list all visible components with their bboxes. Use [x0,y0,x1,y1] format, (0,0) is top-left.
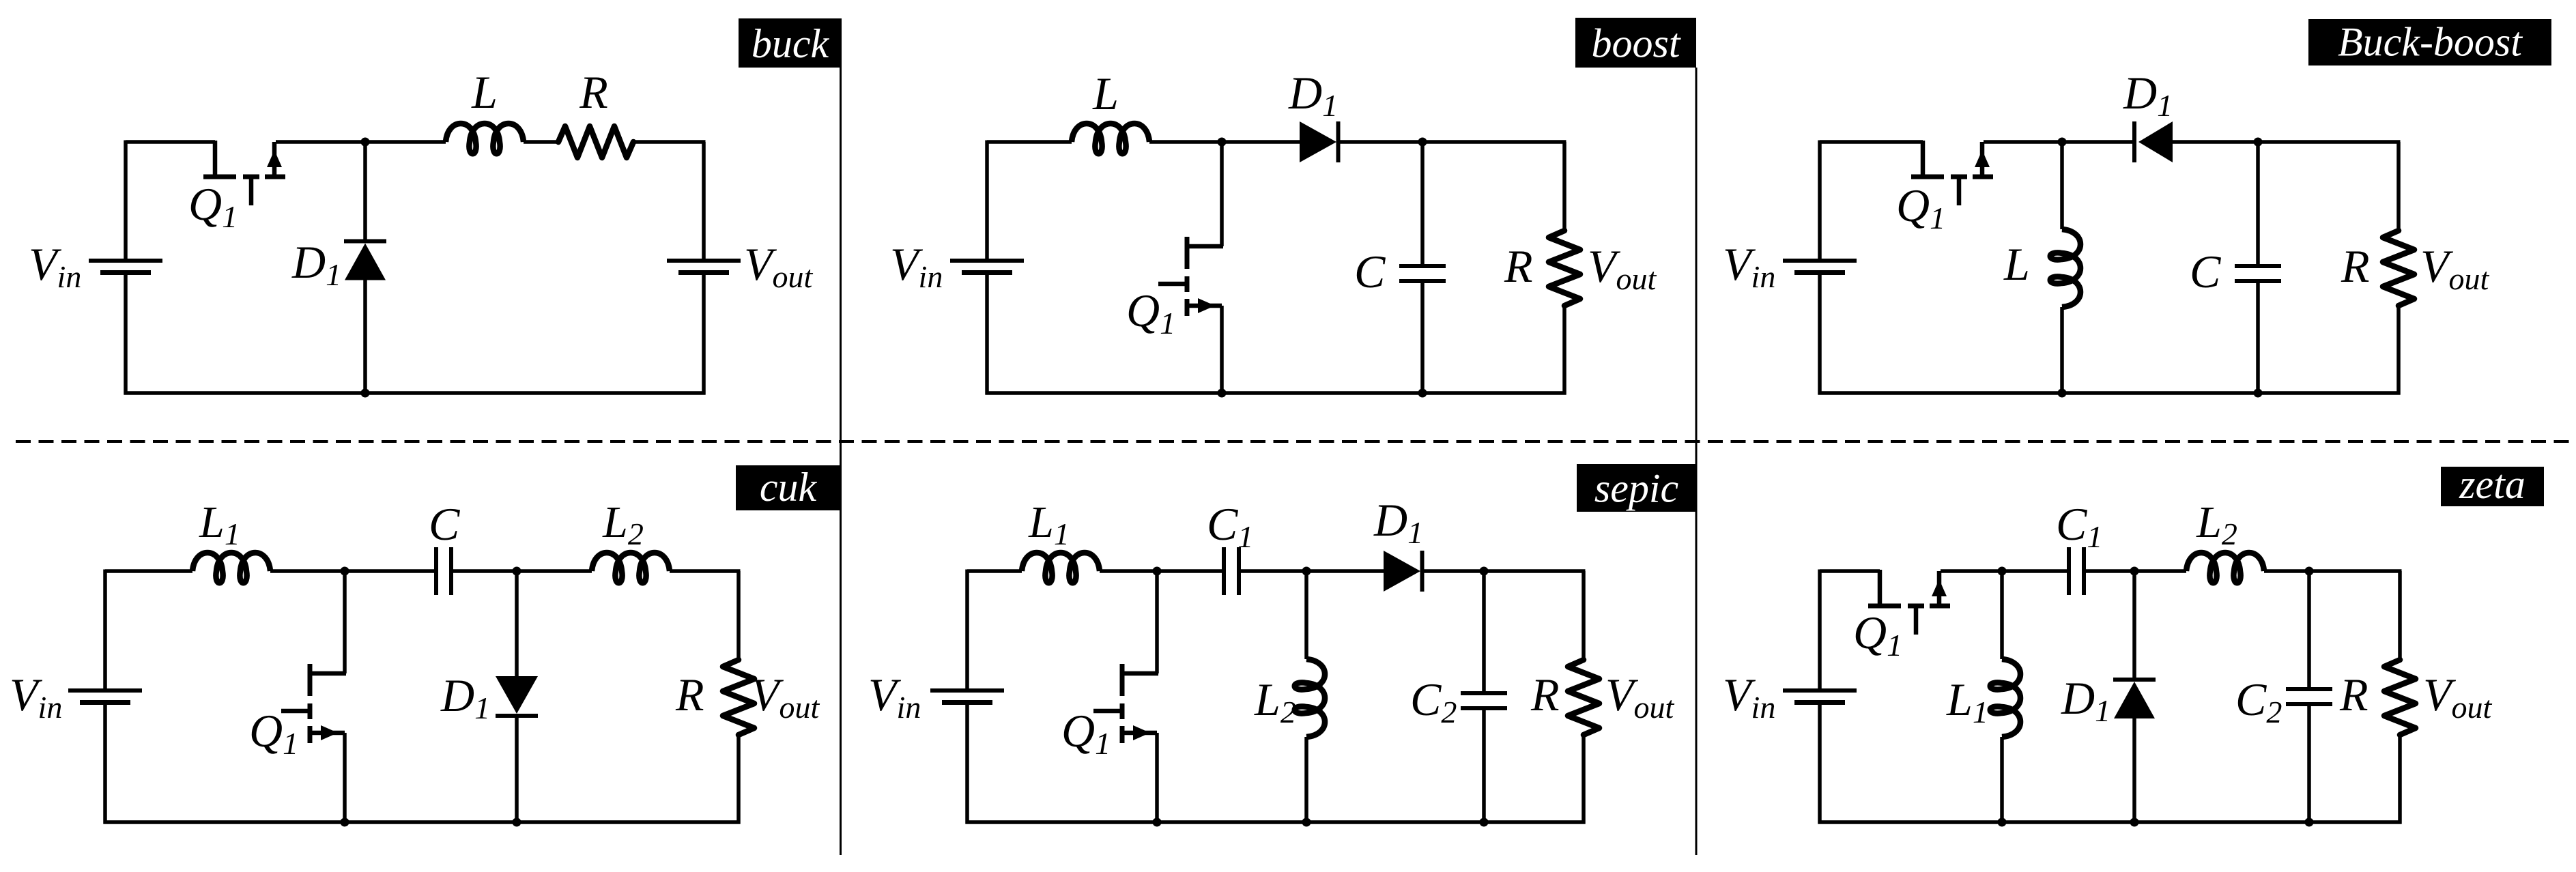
wire Vin+ to Q1 drain [126,140,215,144]
wire Vin+ to Q1 [1820,569,1880,573]
wire cuk bottom rail [104,820,741,824]
wire output top [1562,142,1566,231]
svg-text:R: R [1504,240,1533,292]
battery Vin [1783,261,1857,273]
junction D1-bottom [513,818,521,827]
diode D1 [2134,121,2173,162]
node A (switch node) [361,138,370,147]
junction Q1-bottom [341,818,349,827]
label cuk [736,465,840,510]
transistor Q1 [1911,141,1993,205]
wire node B down to D1 [2132,571,2136,680]
divider vertical left [840,68,842,855]
wire node B to output [1422,140,1566,144]
svg-text:C: C [1354,246,1386,297]
wire Vin+ to L1 [105,569,192,573]
svg-text:R: R [2339,669,2369,721]
svg-text:boost: boost [1591,21,1680,66]
wire node C to output [2309,569,2402,573]
wire node B to C [2256,142,2260,264]
wire Vin+ to L [987,140,1072,144]
diode D1 [344,242,386,280]
wire R to bottom [1562,306,1566,395]
wire Vin bottom [124,274,128,395]
wire R to bottom [2398,735,2402,824]
junction C-bottom [1418,389,1427,398]
node C [1480,567,1489,576]
wire Vin top [124,141,128,259]
transistor Q1 [203,141,285,205]
wire output bottom [702,274,706,395]
node B [2254,138,2263,147]
inductor L [1072,123,1149,154]
resistor R [2383,231,2414,306]
transistor Q1 [1093,664,1158,743]
wire C1 to node B [1241,569,1306,573]
wire C to node B [453,569,517,573]
wire C to bottom [2256,283,2260,393]
junction L1-bottom [1998,818,2007,827]
battery Vin [89,261,162,273]
wire L2 to output [670,569,741,573]
diode D1 [1300,121,1339,162]
svg-text:R: R [1530,669,1560,721]
junction D1-bottom [361,389,370,398]
wire D1 to bottom [515,716,519,822]
node A (switch node) [2058,138,2067,147]
battery Vout [667,261,741,273]
wire Vin top [103,570,107,689]
junction L2-bottom [1302,818,1311,827]
junction Q1-bottom [1218,389,1227,398]
wire node B to output [2258,140,2401,144]
capacitor C [436,547,451,595]
wire Q1 source to node A [276,140,446,144]
junction C-bottom [2254,389,2263,398]
transistor Q1 [281,664,346,743]
node A [1998,567,2007,576]
wire Vin bottom [965,704,969,824]
capacitor C1 [2069,547,2084,595]
resistor R [723,660,754,735]
node B [513,567,521,576]
node B [1302,567,1311,576]
wire R to bottom [736,735,741,824]
battery Vin [950,261,1024,273]
wire node A to C1 [1157,569,1222,573]
wire C1 to node B [2086,569,2134,573]
svg-text:C: C [2190,246,2221,297]
wire Vin+ to L1 [967,569,1022,573]
inductor L2 [1295,659,1325,737]
svg-text:L: L [1092,68,1119,119]
diode D1 [496,676,538,716]
node C [2305,567,2314,576]
capacitor C2 [1461,693,1507,708]
wire node A down to Q1 [1155,571,1159,673]
battery Vin [1783,691,1857,703]
wire sepic bottom rail [966,820,1586,824]
wire R to bottom [1582,735,1586,824]
svg-text:cuk: cuk [760,465,818,510]
wire node B to L2 [517,569,592,573]
inductor L2 [2186,553,2264,583]
capacitor C [1399,266,1446,281]
label boost [1575,18,1696,68]
wire D1 to node C [1424,569,1484,573]
wire node A to D1 cathode [363,142,367,239]
wire D1 to node B [1340,140,1422,144]
wire node A down to L1 [2000,571,2004,659]
wire Q1 to bottom [343,733,347,822]
svg-text:Buck-boost: Buck-boost [2338,20,2523,65]
wire node B down to L2 [1304,571,1308,659]
junction L-bottom [2058,389,2067,398]
wire L to bottom [2060,307,2064,393]
wire node B to C [1420,142,1425,264]
wire node A to D1 [1222,140,1300,144]
svg-text:R: R [2341,240,2370,292]
wire L to node A [1149,140,1222,144]
wire output top [2398,571,2402,660]
capacitor C2 [2286,689,2332,704]
svg-text:L: L [471,66,498,118]
wire Q1 source to node A [1941,569,2002,573]
diode D1 [1384,551,1422,592]
resistor R [1549,231,1580,306]
wire Vin bottom [985,274,989,395]
wire D1 anode to node B [2173,140,2258,144]
label sepic [1577,464,1696,512]
svg-text:R: R [579,66,608,118]
divider vertical right [1695,68,1698,855]
wire output top [2396,142,2401,231]
wire L1 to node A [1100,569,1157,573]
wire Vin top [965,570,969,689]
junction D1-bottom [2130,818,2139,827]
wire node A to C1 [2002,569,2067,573]
wire node B to D1 [1306,569,1384,573]
wire C to bottom [1420,283,1425,393]
wire L1 to node A [270,569,345,573]
svg-text:L: L [2003,238,2030,290]
inductor L [446,123,524,154]
node A (switch node) [1218,138,1227,147]
junction C2-bottom [1480,818,1489,827]
capacitor C1 [1224,547,1239,595]
node B [2130,567,2139,576]
resistor R [2384,660,2416,735]
label zeta [2441,462,2544,507]
svg-text:zeta: zeta [2459,462,2525,507]
node B [1418,138,1427,147]
svg-text:R: R [675,669,704,721]
label Buck-boost [2308,19,2551,66]
wire D1 to bottom [2132,718,2136,822]
wire Vin bottom [1818,274,1822,395]
wire Q1 source to node A [1984,140,2062,144]
wire D1 anode down [363,280,367,394]
inductor L [2050,229,2080,307]
wire R to output [633,140,706,144]
wire node A to C [345,569,434,573]
wire L to R [524,140,558,144]
label buck [739,18,842,68]
wire node B to L2 [2134,569,2186,573]
wire Vin top [1818,570,1822,689]
resistor R [1568,660,1599,735]
node A [341,567,349,576]
wire node C down to C2 [2307,571,2311,687]
wire buck-boost bottom rail [1818,391,2401,395]
wire node A to L [2060,142,2064,229]
wire zeta bottom rail [1818,820,2402,824]
wire node A down to Q1 [343,571,347,673]
wire Vin bottom [1818,704,1822,824]
wire L2 to node C [2264,569,2309,573]
wire Vin top [1818,141,1822,259]
inductor L1 [192,553,270,583]
wire C2 to bottom [1482,710,1486,822]
wire node A down to Q1 [1220,142,1224,246]
junction Q1-bottom [1153,818,1162,827]
wire output top [702,142,706,259]
wire L1 to bottom [2000,737,2004,822]
battery Vin [930,691,1004,703]
wire node A to D1 cathode [2062,140,2132,144]
resistor R [558,126,633,158]
svg-text:sepic: sepic [1594,465,1678,510]
inductor L2 [592,553,670,583]
wire output top [736,571,741,660]
inductor L1 [1990,659,2020,737]
wire boost bottom rail [986,391,1566,395]
wire L2 to bottom [1304,737,1308,822]
battery Vin [68,691,142,703]
wire Vin top [985,141,989,259]
wire Vin+ to Q1 [1820,140,1923,144]
diode D1 [2113,680,2156,718]
wire output top [1582,571,1586,660]
wire node C down to C2 [1482,571,1486,691]
wire Q1 source to bottom [1220,306,1224,393]
inductor L1 [1022,553,1100,583]
junction C2-bottom [2305,818,2314,827]
node A [1153,567,1162,576]
wire Vin bottom [103,704,107,824]
wire Q1 to bottom [1155,733,1159,822]
wire node B down to D1 [515,571,519,676]
transistor Q1 [1868,570,1950,635]
wire node C to output [1484,569,1586,573]
transistor Q1 [1158,237,1223,316]
svg-text:C: C [429,498,460,550]
capacitor C [2235,266,2281,281]
wire buck bottom rail [124,391,706,395]
wire C2 to bottom [2307,706,2311,822]
wire R to bottom [2396,306,2401,395]
svg-text:buck: buck [752,21,830,66]
divider dashed horizontal [16,440,2576,443]
